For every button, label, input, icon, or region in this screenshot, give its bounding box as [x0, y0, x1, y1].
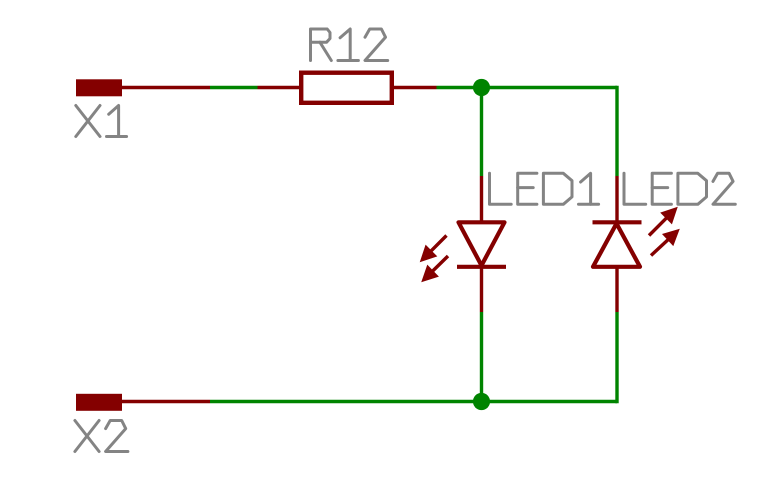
- wire net N2: resistor to corner above LED2: [437, 86, 618, 89]
- connector X2 body: [76, 394, 122, 411]
- diode LED2 triangle: [593, 224, 640, 267]
- label LED1: [490, 173, 599, 204]
- pin LED1 anode (top): [480, 176, 483, 222]
- diode LED1 cathode bar: [457, 265, 506, 269]
- pin LED1 cathode (bottom): [480, 267, 483, 312]
- wire net N3: LED1 bottom pin to bottom rail: [480, 312, 483, 402]
- wire net N2 vertical: corner down to LED2 pin: [615, 86, 618, 176]
- resistor R12 body: [301, 73, 392, 103]
- pin R12 pin2: [394, 86, 437, 89]
- diode LED1 triangle: [459, 222, 505, 265]
- pin X1 pin1: [122, 86, 210, 89]
- label X1: [76, 106, 127, 137]
- LED1 arrow 1: [421, 236, 447, 262]
- LED2 arrow 1: [649, 208, 677, 236]
- label LED2: [624, 173, 735, 204]
- LED2 arrow 2: [651, 230, 679, 256]
- wire net N3: LED2 bottom pin to bottom rail: [615, 312, 618, 403]
- pin R12 pin1: [258, 86, 300, 89]
- label R12: [311, 29, 388, 61]
- junction bottom at node N3: [473, 393, 490, 410]
- wire net N2 vertical: junction down to LED1 pin: [480, 88, 483, 177]
- connector X1 body: [76, 79, 122, 96]
- label X2: [75, 421, 128, 452]
- pin LED2 cathode (top): [615, 176, 618, 222]
- LED1 arrow 2: [422, 256, 448, 282]
- wire net N1 top: X1 to resistor: [210, 86, 258, 89]
- pin X2 pin1: [122, 400, 210, 403]
- pin LED2 anode (bottom): [615, 267, 618, 312]
- diode LED2 cathode bar: [593, 220, 642, 224]
- junction top at node N2: [473, 79, 490, 96]
- wire net N3 bottom rail: X2 to LED2: [210, 400, 617, 403]
